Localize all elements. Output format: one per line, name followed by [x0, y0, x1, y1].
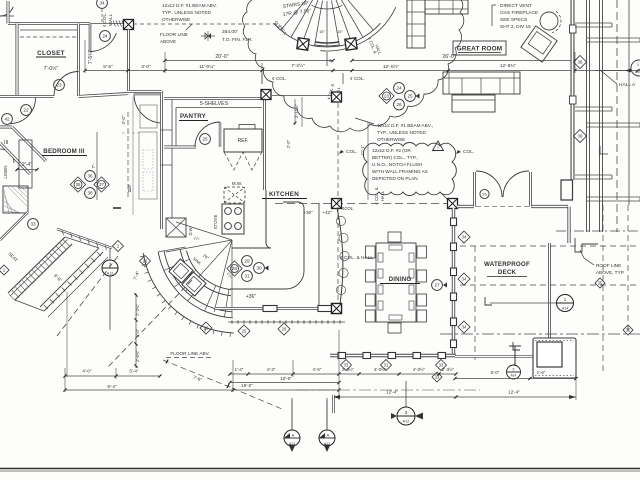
- warning triangle: [433, 141, 444, 151]
- closet east wall: [77, 24, 80, 72]
- keynote 22: [21, 105, 32, 116]
- svg-text:STOVE: STOVE: [213, 215, 218, 230]
- wall corner down to deck: [567, 207, 570, 244]
- dashed ceiling box: [96, 132, 98, 200]
- counter band arcs: [158, 252, 233, 318]
- svg-text:4'-0": 4'-0": [82, 369, 92, 374]
- joist single right: [628, 0, 630, 205]
- svg-text:ABOVE, TYP.: ABOVE, TYP.: [596, 270, 625, 275]
- svg-text:!: !: [437, 145, 438, 150]
- L bracket deck: [485, 297, 492, 305]
- bedroom keynotes 35-38: [85, 171, 96, 182]
- vertical dashed west of dining: [337, 103, 339, 303]
- svg-text:35: 35: [626, 327, 631, 332]
- glass bumps: [336, 216, 345, 225]
- svg-text:34: 34: [462, 276, 467, 281]
- bedroom door arc: [134, 94, 163, 123]
- svg-text:39: 39: [578, 59, 583, 64]
- joist keynote diamonds: [574, 56, 587, 69]
- deck dashed boundary lines: [460, 245, 640, 247]
- svg-text:24: 24: [102, 34, 108, 39]
- svg-text:¢ COL.: ¢ COL.: [272, 76, 287, 81]
- plates left/right: [378, 253, 383, 262]
- hot tub square: [537, 342, 562, 367]
- chairs: [366, 246, 376, 258]
- heat register: [113, 207, 121, 209]
- planter box: [533, 338, 576, 378]
- long sofa: [443, 72, 520, 94]
- revision cloud col note: [363, 143, 457, 196]
- svg-text:COL.: COL.: [463, 149, 474, 155]
- roof line above zigzag: [575, 238, 598, 252]
- svg-text:12'-4": 12'-4": [508, 390, 520, 395]
- radial fan lines: [158, 247, 186, 252]
- svg-text:A12: A12: [107, 272, 113, 276]
- fan guide lines from island corner: [176, 222, 232, 240]
- extension verticals: [84, 40, 86, 73]
- wall from column down to kitchen: [127, 30, 130, 92]
- small L bracket: [600, 146, 608, 154]
- svg-text:23: 23: [56, 83, 62, 88]
- dining west curved wall: [337, 208, 343, 304]
- keynote 34 top: [97, 0, 108, 8]
- svg-text:25: 25: [407, 94, 413, 99]
- svg-text:1'-4": 1'-4": [235, 367, 244, 372]
- armchair rotated: [521, 26, 557, 62]
- svg-text:29: 29: [244, 259, 250, 264]
- svg-text:2'-0": 2'-0": [286, 139, 291, 148]
- svg-text:2o: 2o: [127, 187, 132, 192]
- svg-text:15°: 15°: [337, 30, 343, 34]
- dining table: [376, 243, 416, 322]
- svg-text:BETTER) COL., TYP.,: BETTER) COL., TYP.,: [372, 155, 418, 160]
- svg-text:264.00': 264.00': [222, 29, 238, 35]
- svg-text:OTHERWISE: OTHERWISE: [162, 17, 190, 22]
- svg-text:SHT 2, DIV 15: SHT 2, DIV 15: [500, 24, 531, 30]
- corner connectors: [65, 237, 99, 248]
- svg-text:33: 33: [344, 362, 349, 367]
- svg-text:4'-6": 4'-6": [313, 367, 322, 372]
- island rounded outline: [232, 247, 266, 249]
- door swing arc: [90, 33, 116, 51]
- stair arcs: [274, 23, 381, 47]
- svg-text:1'-6": 1'-6": [537, 370, 546, 375]
- svg-text:HALL A: HALL A: [619, 82, 636, 88]
- svg-text:7'-2½": 7'-2½": [291, 62, 305, 69]
- svg-text:WALL: WALL: [108, 13, 113, 26]
- svg-text:+36": +36": [246, 294, 256, 300]
- svg-text:BEDROOM III: BEDROOM III: [43, 148, 84, 155]
- svg-text:11'-0¼": 11'-0¼": [199, 64, 215, 70]
- sofa table: [452, 95, 495, 112]
- svg-text:LINEN: LINEN: [3, 166, 8, 179]
- sheet border line: [0, 468, 640, 470]
- revision cloud around stairs: [243, 0, 464, 132]
- keynote 25: [200, 134, 211, 145]
- dishwasher X square: [166, 218, 186, 237]
- svg-text:26: 26: [204, 325, 209, 330]
- bottom dims row1 left: [65, 375, 160, 377]
- svg-text:35: 35: [76, 182, 81, 187]
- svg-text:4'-3": 4'-3": [267, 367, 276, 372]
- svg-text:COL.: COL.: [346, 149, 357, 155]
- svg-text:5'-0": 5'-0": [135, 328, 140, 337]
- svg-text:34: 34: [462, 324, 467, 329]
- ext verticals bottom-left: [66, 292, 68, 377]
- svg-text:24: 24: [396, 86, 402, 91]
- bay outer sill: [48, 257, 108, 317]
- faucet symbol: [509, 346, 521, 366]
- svg-text:35: 35: [598, 280, 603, 285]
- svg-text:5'-4": 5'-4": [129, 369, 139, 374]
- svg-text:¢ COL. &: ¢ COL. &: [374, 187, 379, 204]
- svg-text:A: A: [292, 433, 295, 438]
- svg-text:A14: A14: [511, 374, 517, 378]
- svg-text:+36": +36": [303, 210, 313, 215]
- svg-text:5'-0": 5'-0": [491, 370, 500, 375]
- svg-text:WATERPROOF: WATERPROOF: [484, 261, 530, 268]
- section circle A14 bottom: [507, 365, 521, 379]
- svg-text:25: 25: [242, 328, 247, 333]
- svg-text:27: 27: [434, 283, 440, 288]
- wall posts: [570, 25, 577, 33]
- svg-text:12x12 D.F. #1 BEAM ABV.,: 12x12 D.F. #1 BEAM ABV.,: [377, 123, 433, 128]
- dining south wall: [330, 354, 456, 357]
- dim line level1 20-0 / 26-0: [165, 60, 333, 62]
- X-box columns dining: [332, 199, 342, 209]
- window sill hatch top wall: [90, 23, 124, 25]
- window seat hatched band: [8, 237, 65, 293]
- nook west vertical: [318, 203, 320, 306]
- fireplace circle: [540, 12, 558, 30]
- svg-text:28: 28: [232, 266, 237, 271]
- dims below dining row: [339, 373, 456, 375]
- blocking bars: [575, 22, 612, 24]
- keynote diamond left edge: [0, 265, 9, 275]
- svg-text:7'-0½": 7'-0½": [44, 65, 59, 72]
- svg-text:GREAT ROOM: GREAT ROOM: [457, 46, 503, 53]
- french doors arcs: [476, 171, 502, 197]
- svg-text:FLOOR LINE: FLOOR LINE: [160, 32, 188, 37]
- closet door leaf+arc (keynote 23): [77, 71, 80, 96]
- svg-text:+42": +42": [322, 210, 332, 215]
- spiral stair treads: [344, 0, 374, 30]
- svg-text:3'-0": 3'-0": [141, 64, 151, 70]
- svg-text:34: 34: [99, 1, 105, 6]
- kitchen east wall below fridge: [263, 152, 266, 190]
- section marker 3/A12: [405, 381, 407, 407]
- svg-text:36: 36: [87, 174, 93, 179]
- nook south wall: [215, 307, 334, 310]
- svg-text:39: 39: [578, 133, 583, 138]
- svg-text:DINING: DINING: [389, 276, 412, 283]
- left wall fragments: [0, 126, 12, 129]
- door leaf at closet top: [89, 24, 92, 53]
- svg-text:A12: A12: [403, 420, 410, 424]
- dash-dot line across joists: [556, 230, 640, 232]
- wardrobe rects near kitchen wall: [140, 105, 157, 128]
- beam dashed line dining north: [275, 203, 448, 205]
- svg-text:III: III: [4, 140, 9, 146]
- svg-text:¢ COL.: ¢ COL.: [350, 76, 365, 81]
- seat room NW wall: [0, 212, 28, 240]
- svg-text:DEPICTED ON PLAN: DEPICTED ON PLAN: [372, 176, 418, 181]
- stair rail between columns: [315, 42, 339, 43]
- door top-left corner arc: [0, 7, 13, 16]
- bay window band: [40, 248, 99, 307]
- svg-text:38: 38: [87, 191, 93, 196]
- column X-box top: [124, 20, 134, 30]
- hall wall line between columns: [272, 95, 331, 97]
- svg-text:¢ COL.: ¢ COL.: [102, 13, 107, 28]
- door sill dashes: [476, 206, 529, 208]
- keynote circle right edge: [631, 60, 640, 76]
- svg-text:5-SHELVES: 5-SHELVES: [200, 101, 229, 107]
- bedroom south diagonal wall: [57, 229, 112, 248]
- svg-text:25: 25: [202, 137, 208, 142]
- wall closet north: [8, 22, 90, 25]
- pantry door leaf+arc: [219, 122, 221, 147]
- svg-text:2'-6¾": 2'-6¾": [135, 350, 140, 362]
- closet south wall: [0, 95, 54, 98]
- svg-text:12'-0½": 12'-0½": [383, 63, 400, 70]
- dashed beam line from column to stairs: [133, 23, 280, 25]
- svg-text:4'-0½": 4'-0½": [413, 367, 426, 372]
- svg-text:12x12 D.F. #1 BEAM ABV.: 12x12 D.F. #1 BEAM ABV.: [162, 3, 217, 8]
- nook edge diamonds: [200, 322, 212, 334]
- sectional sofa top: [407, 0, 425, 48]
- keynote 33: [28, 219, 39, 230]
- svg-text:¢: ¢: [329, 58, 332, 63]
- dashed floor/roof diagonals: [57, 256, 118, 336]
- X-box column below stairs: [332, 92, 342, 102]
- dashed roof line vertical: [616, 0, 618, 232]
- great room label box: [453, 41, 506, 55]
- sink double bowl rotated: [169, 259, 193, 283]
- pantry east wall: [263, 91, 266, 152]
- svg-text:U.N.O., NOTCH FLUSH: U.N.O., NOTCH FLUSH: [372, 162, 422, 167]
- hall door arc (keynote 22): [10, 98, 36, 124]
- keynote diamonds near bay: [113, 241, 124, 252]
- svg-text:TYP., UNLESS NOTED: TYP., UNLESS NOTED: [377, 130, 426, 135]
- deck mid wall vertical: [548, 243, 551, 356]
- svg-text:A: A: [327, 433, 330, 438]
- svg-text:11'-1": 11'-1": [360, 144, 365, 155]
- svg-text:30: 30: [256, 266, 262, 271]
- keynotes 28-31: [242, 256, 253, 267]
- french door jambs: [473, 172, 476, 207]
- svg-text:4'-0": 4'-0": [121, 115, 126, 125]
- svg-text:15°: 15°: [319, 30, 325, 34]
- deck bottom dim line: [333, 396, 576, 398]
- svg-text:2'-2¾": 2'-2¾": [135, 304, 140, 316]
- svg-text:DECK: DECK: [498, 269, 517, 276]
- great room east wall: [571, 0, 575, 180]
- svg-text:22: 22: [23, 108, 29, 113]
- svg-text:7'-: 7'-: [91, 163, 96, 168]
- svg-text:34: 34: [462, 234, 467, 239]
- svg-text:33: 33: [439, 362, 444, 367]
- svg-text:12'-8¾": 12'-8¾": [500, 63, 517, 69]
- svg-text:GAS FIREPLACE: GAS FIREPLACE: [500, 10, 538, 16]
- svg-text:37: 37: [99, 182, 104, 187]
- dash-dot centerline deck bottom: [296, 389, 480, 391]
- bottom dims row1 right: [230, 373, 339, 375]
- closet west wall: [16, 24, 19, 97]
- wall far-left room edge: [7, 1, 10, 24]
- deck keynote diamonds: [458, 231, 470, 243]
- svg-text:M.W.: M.W.: [232, 181, 242, 186]
- kitchen north wall: [129, 90, 162, 93]
- svg-text:18'-0": 18'-0": [241, 383, 253, 388]
- keynote cluster great room: [394, 83, 405, 94]
- svg-text:10'-6": 10'-6": [280, 376, 292, 381]
- svg-text:A14: A14: [635, 70, 640, 74]
- svg-text:CLOSET: CLOSET: [37, 50, 65, 57]
- svg-text:12x12 D.F. #2 (OR: 12x12 D.F. #2 (OR: [372, 148, 411, 153]
- fridge: [224, 129, 262, 152]
- kitchen floor line rounded: [230, 202, 304, 289]
- dresser rect: [19, 140, 32, 188]
- island left edge: [265, 190, 267, 243]
- stair centerline symbol: [326, 52, 328, 66]
- svg-text:26: 26: [396, 102, 402, 107]
- svg-text:2'-4": 2'-4": [22, 162, 32, 168]
- svg-text:OTHERWISE: OTHERWISE: [377, 137, 405, 142]
- joist pair 2: [599, 0, 601, 232]
- elevation flag markers bottom: [291, 400, 293, 430]
- X-box nook SE column: [332, 304, 342, 314]
- svg-text:26: 26: [482, 192, 487, 197]
- section marker 2/A12: [102, 260, 118, 276]
- svg-text:HALL: HALL: [380, 190, 385, 201]
- section marker 1/A14: [557, 295, 574, 312]
- svg-text:7'-5¾": 7'-5¾": [88, 50, 94, 64]
- keynote 23: [54, 80, 65, 91]
- deck south line: [455, 355, 534, 357]
- X-box dining SW: [332, 304, 342, 314]
- svg-text:5'-5": 5'-5": [103, 64, 113, 70]
- stair X-box columns: [297, 38, 309, 50]
- svg-text:33: 33: [30, 222, 36, 227]
- hatched shower square: [4, 187, 27, 213]
- keynote 27: [432, 280, 443, 291]
- wall right of dining col: [457, 205, 474, 208]
- counter edge along west wall: [171, 98, 173, 218]
- bottom dims row2: [230, 382, 339, 384]
- scalloped deck edge below nook: [228, 321, 345, 323]
- joist pair 1: [586, 0, 588, 232]
- stove: [222, 204, 244, 234]
- svg-text:3: 3: [405, 410, 408, 415]
- diagonal dim 7-6 line: [163, 360, 232, 388]
- keynote 24: [100, 31, 111, 42]
- svg-text:31: 31: [244, 274, 250, 279]
- fridge door swing dashes: [224, 152, 262, 170]
- svg-text:DIRECT VENT: DIRECT VENT: [500, 3, 532, 9]
- svg-text:20'-0": 20'-0": [215, 54, 228, 60]
- dim line level2: [85, 70, 640, 72]
- keynote 26 french door: [480, 189, 489, 198]
- svg-text:PANTRY: PANTRY: [180, 113, 207, 120]
- pantry south wall + door: [164, 146, 196, 149]
- bottom dims row3: [65, 389, 339, 391]
- curved counter outer floor line with ticks: [143, 253, 234, 333]
- svg-text:FLOOR LINE ABV.: FLOOR LINE ABV.: [170, 351, 209, 356]
- svg-text:D.W.: D.W.: [188, 226, 193, 235]
- wall corner jog bottom: [561, 180, 573, 200]
- svg-text:KITCHEN: KITCHEN: [269, 191, 299, 198]
- left edge door arc: [0, 149, 14, 163]
- svg-text:31: 31: [384, 362, 389, 367]
- planter dot texture: [535, 375, 574, 377]
- diagonal wall upper (linen): [12, 127, 46, 161]
- svg-text:ROOF LINE: ROOF LINE: [596, 263, 621, 268]
- vertical dim chain right of bay: [135, 293, 137, 368]
- svg-text:REF.: REF.: [238, 138, 249, 144]
- closet shelf line: [20, 29, 77, 31]
- pantry north wall: [164, 97, 262, 100]
- svg-text:TYP., UNLESS NOTED: TYP., UNLESS NOTED: [162, 10, 211, 15]
- svg-text:23: 23: [384, 94, 389, 99]
- svg-text:26: 26: [282, 326, 287, 331]
- marker extension verticals: [291, 398, 293, 430]
- svg-text:9'-4": 9'-4": [107, 384, 117, 389]
- dining east wall: [452, 208, 455, 355]
- keynote 42: [2, 114, 13, 125]
- svg-text:WITH WALL FRAMING AS: WITH WALL FRAMING AS: [372, 169, 428, 174]
- svg-text:SEE SPECS: SEE SPECS: [500, 17, 527, 23]
- X-box column pantry NE: [261, 90, 271, 100]
- svg-text:42: 42: [4, 117, 10, 122]
- svg-text:ABOVE: ABOVE: [160, 39, 176, 44]
- svg-text:A14: A14: [562, 307, 568, 311]
- svg-text:¢COL.: ¢COL.: [342, 206, 354, 211]
- kitchen west wall: [160, 91, 163, 229]
